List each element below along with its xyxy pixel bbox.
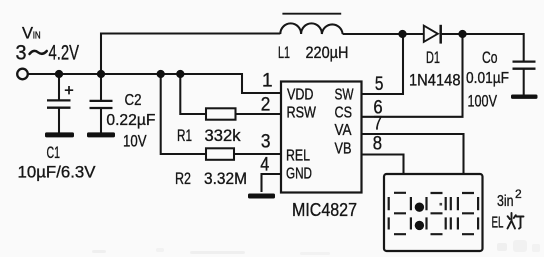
svg-text:4.2V: 4.2V — [49, 42, 80, 65]
svg-text:3.32M: 3.32M — [204, 169, 247, 188]
svg-text:RSW: RSW — [287, 105, 317, 122]
svg-text:220µH: 220µH — [306, 43, 349, 62]
svg-text:4: 4 — [260, 154, 269, 175]
svg-text:C1: C1 — [47, 143, 61, 162]
svg-text:R2: R2 — [175, 169, 191, 188]
svg-text:MIC4827: MIC4827 — [292, 200, 357, 220]
svg-text:100V: 100V — [468, 92, 498, 111]
svg-text:VDD: VDD — [287, 87, 314, 104]
svg-text:0.22µF: 0.22µF — [106, 112, 155, 129]
svg-text:2: 2 — [261, 95, 271, 116]
svg-text:1: 1 — [262, 71, 273, 92]
svg-text:EL: EL — [492, 215, 504, 232]
svg-text:7: 7 — [373, 114, 382, 135]
svg-text:D1: D1 — [426, 48, 440, 67]
svg-text:R1: R1 — [177, 126, 192, 145]
svg-text:REL: REL — [286, 148, 310, 165]
svg-text:Co: Co — [482, 48, 498, 67]
svg-text:0.01µF: 0.01µF — [466, 70, 509, 87]
svg-text:GND: GND — [286, 166, 312, 183]
svg-text:332k: 332k — [205, 126, 241, 145]
svg-text:SW: SW — [335, 87, 354, 104]
svg-text:8: 8 — [373, 133, 382, 154]
svg-text:V: V — [22, 25, 33, 43]
svg-text:5: 5 — [375, 74, 384, 95]
svg-text:3in: 3in — [497, 193, 514, 210]
svg-text:3: 3 — [261, 132, 271, 153]
svg-text:VA: VA — [335, 122, 353, 139]
svg-text:3: 3 — [16, 42, 27, 65]
svg-text:IN: IN — [33, 30, 41, 42]
svg-text:C2: C2 — [125, 92, 142, 109]
svg-text:2: 2 — [515, 187, 522, 201]
svg-text:L1: L1 — [278, 43, 290, 62]
svg-text:1N4148: 1N4148 — [409, 71, 461, 90]
svg-text:CS: CS — [335, 105, 353, 122]
svg-text:10V: 10V — [123, 132, 147, 151]
svg-text:10µF/6.3V: 10µF/6.3V — [18, 163, 97, 182]
svg-text:VB: VB — [335, 141, 352, 158]
